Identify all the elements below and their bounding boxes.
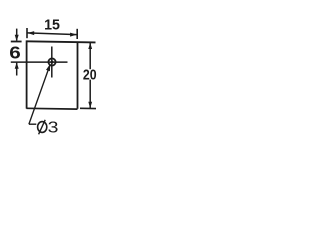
wire part outline bottom edge xyxy=(26,107,77,110)
wire part outline left edge xyxy=(26,40,28,108)
node right tick of dimension 15 xyxy=(76,29,78,39)
svg-text:3: 3 xyxy=(48,118,59,136)
wire hole centerline horizontal with left extension tick xyxy=(11,61,68,63)
label hole diameter symbol O of Ø3 xyxy=(38,122,47,133)
node arrowhead right of dimension 15 xyxy=(70,33,77,37)
wire bottom extension line for dimension 20 xyxy=(80,107,96,109)
node leader arrowhead at hole edge xyxy=(46,64,50,72)
node arrowhead down of dimension 6 upper xyxy=(15,35,19,41)
svg-text:20: 20 xyxy=(83,66,97,82)
node left tick of dimension 15 xyxy=(26,28,28,38)
node hole center mark xyxy=(51,61,54,64)
wire part outline top edge with extension line xyxy=(27,41,96,42)
node arrowhead up of dimension 20 xyxy=(88,43,92,49)
node arrowhead up of dimension 6 lower xyxy=(15,62,19,68)
wire dimension line 20 lower segment xyxy=(89,80,91,109)
node top tick of dimension 6 xyxy=(11,41,22,43)
wire dimension line 20 upper segment xyxy=(89,43,91,70)
wire hole centerline vertical xyxy=(51,47,53,78)
svg-text:15: 15 xyxy=(44,17,60,33)
svg-text:6: 6 xyxy=(9,43,21,63)
wire leader landing line xyxy=(29,123,36,125)
label hole diameter slash of Ø3 xyxy=(39,120,46,135)
wire dimension line 15 xyxy=(27,33,77,35)
node arrowhead left of dimension 15 xyxy=(28,31,35,35)
node arrowhead down of dimension 20 xyxy=(88,102,92,108)
wire leader line to hole label xyxy=(29,64,50,124)
hole circle Ø3 xyxy=(48,58,55,65)
wire part outline right edge xyxy=(77,42,79,109)
wire upper arrow shaft of dimension 6 xyxy=(16,29,18,41)
wire lower arrow shaft of dimension 6 xyxy=(16,63,18,76)
